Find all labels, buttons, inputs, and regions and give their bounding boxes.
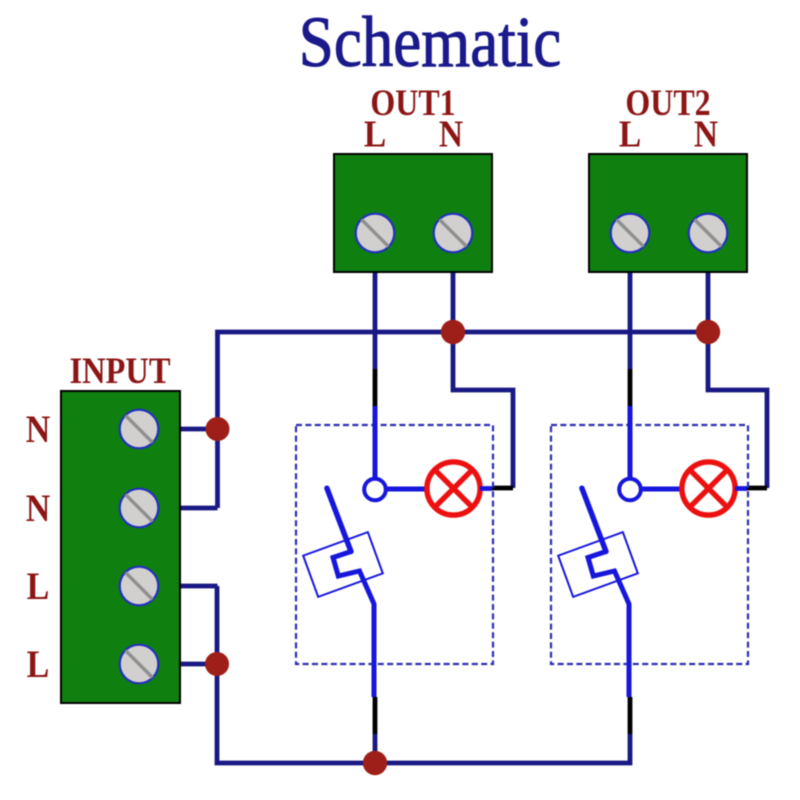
svg-text:L: L: [619, 112, 641, 155]
svg-text:N: N: [694, 112, 718, 155]
svg-text:N: N: [26, 487, 51, 530]
svg-text:L: L: [364, 112, 386, 155]
svg-text:N: N: [26, 408, 51, 451]
svg-text:N: N: [439, 112, 463, 155]
svg-text:Schematic: Schematic: [299, 2, 561, 82]
svg-text:L: L: [27, 643, 50, 686]
svg-text:L: L: [27, 565, 50, 608]
svg-text:INPUT: INPUT: [69, 350, 170, 391]
